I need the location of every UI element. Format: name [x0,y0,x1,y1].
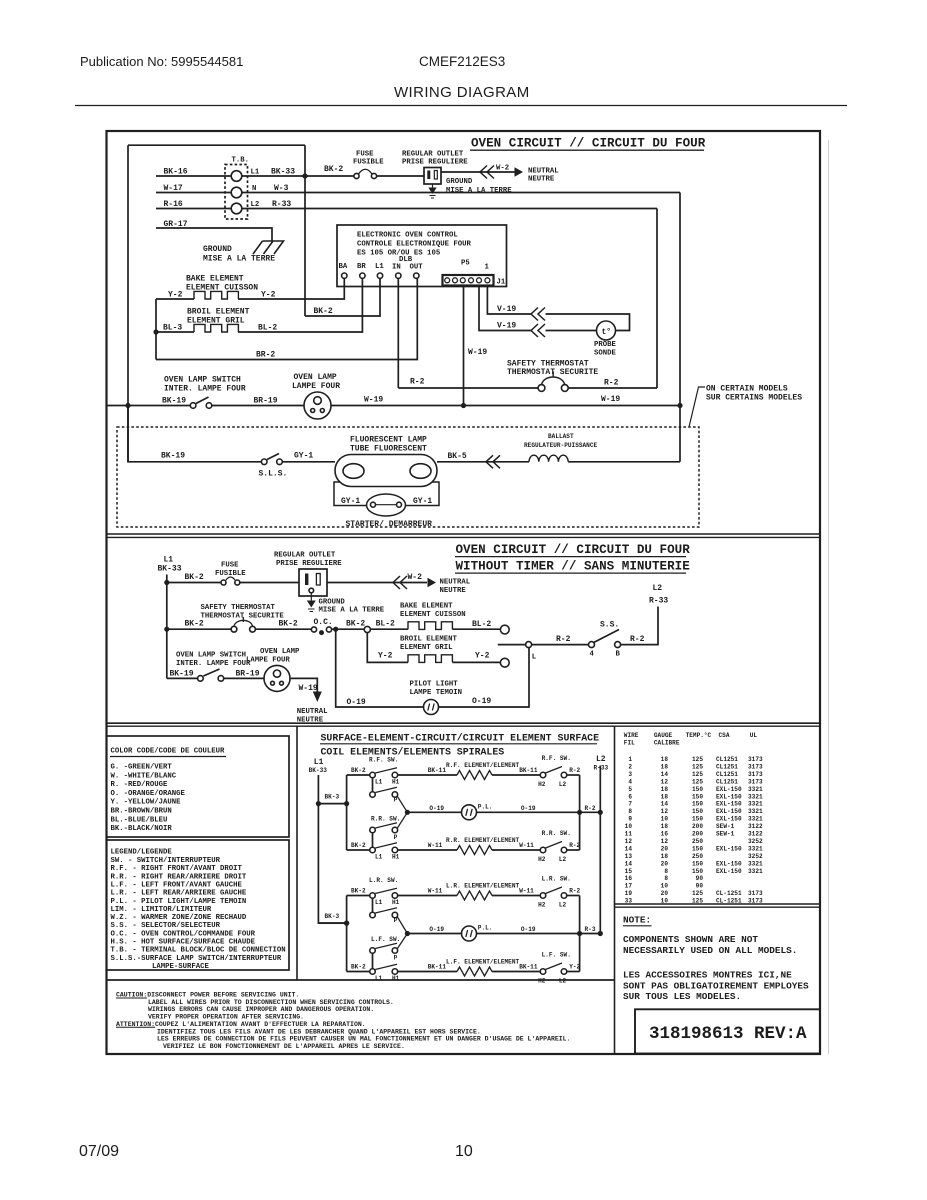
svg-text:CL-1251: CL-1251 [716,890,742,897]
wire broil element to selector contact [452,661,500,663]
surface element L.F. group 2 [457,967,492,976]
svg-text:O-19: O-19 [521,926,536,933]
svg-text:10: 10 [625,823,633,830]
wire table bottom border (upper line) [615,903,821,905]
svg-text:H.S. - HOT SURFACE/SURFACE CHA: H.S. - HOT SURFACE/SURFACE CHAUDE [111,939,256,947]
svg-text:BK-2: BK-2 [279,620,298,629]
svg-text:R-2: R-2 [569,767,580,774]
svg-text:Y-2: Y-2 [168,291,183,300]
wire feed group 2 [318,922,346,924]
link left contacts top group 1 [372,778,374,792]
svg-text:14: 14 [625,845,633,852]
svg-text:SUR TOUS LES MODELES.: SUR TOUS LES MODELES. [623,991,741,1002]
svg-text:VERIFY PROPER OPERATION AFTER: VERIFY PROPER OPERATION AFTER SERVICING. [148,1014,304,1021]
junction left frame bus / left feed [125,403,130,408]
svg-text:3321: 3321 [748,845,763,852]
ballast inductor coil [529,455,568,462]
svg-text:L.F. ELEMENT/ELEMENT: L.F. ELEMENT/ELEMENT [446,959,519,966]
svg-text:18: 18 [661,786,669,793]
regular outlet symbol (section 2) [299,569,327,596]
svg-text:BAKE ELEMENT: BAKE ELEMENT [186,275,244,284]
svg-text:L1: L1 [375,779,383,786]
svg-text:200: 200 [692,823,703,830]
revision box [635,1009,820,1053]
svg-text:SEW-1: SEW-1 [716,831,735,838]
svg-text:GAUGE: GAUGE [654,732,673,739]
svg-text:BR-19: BR-19 [254,397,278,406]
svg-text:BL-2: BL-2 [376,620,395,629]
wire BR-2 row to OUT terminal [156,278,417,359]
neutral down arrow (section 2) [313,692,322,703]
wire feed to bottom switch group 1 [347,849,370,851]
S.S. switch contact B [615,642,621,648]
wire BR terminal to BL-2 broil row [238,278,362,332]
svg-text:H2: H2 [538,902,546,909]
wire top box line from left bus to BK-2 bus [128,144,305,146]
svg-text:BA: BA [339,263,348,271]
svg-text:L1: L1 [375,263,384,271]
contact lower P right group 1 [392,827,398,833]
svg-text:150: 150 [692,868,703,875]
svg-text:ELEMENT CUISSON: ELEMENT CUISSON [400,611,466,619]
svg-text:12: 12 [661,778,669,785]
svg-text:BK-2: BK-2 [346,620,365,629]
svg-text:BK-11: BK-11 [519,964,538,971]
svg-text:BK-33: BK-33 [271,168,295,177]
oven lamp switch right contact (section 2) [218,676,224,682]
svg-text:W-3: W-3 [274,184,289,193]
svg-text:R.R. SW.: R.R. SW. [542,830,571,837]
wire J1 pin to V-19 lower row [479,285,531,331]
safety thermostat left terminal [538,385,545,392]
svg-text:L.R. - LEFT REAR/ARRIERE GAUCH: L.R. - LEFT REAR/ARRIERE GAUCHE [111,890,247,898]
svg-text:BR.-BROWN/BRUN: BR.-BROWN/BRUN [111,808,172,816]
svg-text:18: 18 [661,823,669,830]
oven temperature probe symbol [597,321,616,340]
svg-text:O-19: O-19 [429,805,444,812]
svg-text:19: 19 [625,890,633,897]
svg-text:R.F. SW.: R.F. SW. [542,755,571,762]
svg-text:16: 16 [661,831,669,838]
wire R.F. row left group 1 [398,774,457,776]
S.S. switch contact 4 [589,642,595,648]
wire R.F. row right group 1 [492,774,540,776]
svg-text:6: 6 [628,793,632,800]
oven control contact right [326,627,331,632]
right switch contact H2 R.F. group 1 [540,772,546,778]
svg-text:BR-2: BR-2 [256,351,275,360]
wire pilot light to selector common [439,648,530,707]
wire BA terminal to Y-2 bake row [238,278,344,299]
fuse left terminal (section 2) [221,580,226,585]
svg-text:O. -ORANGE/ORANGE: O. -ORANGE/ORANGE [111,790,186,798]
svg-text:NEUTRAL: NEUTRAL [297,708,328,716]
pilot light P.L. group 2 [462,926,477,941]
svg-text:MISE A LA TERRE: MISE A LA TERRE [446,187,512,195]
svg-text:MISE A LA TERRE: MISE A LA TERRE [319,607,385,615]
junction L1 bus / thermostat row [164,627,169,632]
wire outlet ground lead [310,593,312,601]
svg-text:H1: H1 [392,779,400,786]
svg-text:R-2: R-2 [604,379,619,388]
svg-text:L1: L1 [375,854,383,861]
svg-text:CL1251: CL1251 [716,756,738,763]
svg-text:O-19: O-19 [521,805,536,812]
scan edge artifact line [828,140,830,1054]
svg-text:1: 1 [485,264,490,272]
regular outlet symbol [424,168,441,185]
svg-text:SAFETY THERMOSTAT: SAFETY THERMOSTAT [201,604,276,612]
surface lamp switch arm [267,454,279,460]
wire feed to top switch group 1 [347,774,370,776]
outlet ground terminal (section 2) [309,588,314,593]
wire bake tap down to broil row [367,633,408,663]
svg-text:3122: 3122 [748,831,763,838]
leader to dashed box [689,387,705,427]
neutral terminator arrow W-2 [515,167,524,177]
svg-text:3321: 3321 [748,786,763,793]
divider below oven circuit section (lower line) [107,536,821,538]
wire S.S. to L2 riser [621,607,658,645]
svg-text:T.B. - TERMINAL BLOCK/BLOC DE: T.B. - TERMINAL BLOCK/BLOC DE CONNECTION [111,947,286,955]
svg-text:H2: H2 [538,781,546,788]
broil element (section 2) [408,655,452,663]
svg-text:BK-2: BK-2 [314,307,333,316]
svg-text:ELEMENT GRIL: ELEMENT GRIL [400,644,453,652]
svg-text:L2: L2 [559,781,567,788]
connector J1 pin 2 [453,278,458,283]
wire feed to top switch group 2 [347,895,370,897]
svg-text:10: 10 [661,883,669,890]
wire pilot row right group 2 [477,933,601,935]
link left contacts bottom group 1 [372,833,374,847]
svg-text:BK-2: BK-2 [185,620,204,629]
svg-text:W-19: W-19 [468,348,487,357]
svg-text:10: 10 [661,816,669,823]
svg-text:L.R. ELEMENT/ELEMENT: L.R. ELEMENT/ELEMENT [446,883,519,890]
contact bottom L1 left group 1 [370,847,376,853]
surface title underline [320,743,597,745]
starter right terminal [397,502,402,507]
svg-text:P: P [394,834,398,841]
svg-text:33: 33 [625,898,633,905]
connector J1 pin 5 [477,278,482,283]
svg-text:125: 125 [692,771,703,778]
selector common terminal L [526,642,532,648]
starter left terminal [371,502,376,507]
section 1 title underline [470,149,704,151]
svg-text:LABEL ALL WIRES PRIOR TO DISCO: LABEL ALL WIRES PRIOR TO DISCONNECTION W… [148,999,394,1006]
svg-text:IDENTIFIEZ TOUS LES FILS AVANT: IDENTIFIEZ TOUS LES FILS AVANT DE LES DE… [157,1028,481,1035]
terminal block terminal N [231,187,242,198]
switch arm upper-mid group 1 [375,787,397,792]
svg-text:O-19: O-19 [472,697,491,706]
junction L1 bus / group 1 feed [316,801,321,806]
svg-text:LES ACCESSOIRES MONTRES ICI,NE: LES ACCESSOIRES MONTRES ICI,NE [623,970,792,981]
terminal block terminal L2 [231,203,242,214]
svg-text:NEUTRE: NEUTRE [440,587,467,595]
svg-text:CAUTION:DISCONNECT POWER BEFOR: CAUTION:DISCONNECT POWER BEFORE SERVICIN… [116,992,299,999]
svg-text:NEUTRE: NEUTRE [528,176,555,184]
svg-text:BK-33: BK-33 [309,767,328,774]
svg-text:BK-2: BK-2 [351,888,366,895]
wire L.R. row left group 2 [398,895,457,897]
svg-text:P: P [394,955,398,962]
svg-text:8: 8 [628,808,632,815]
wire L2 row R-16/R-33 [156,208,657,210]
pilot light symbol (section 2) [424,700,439,715]
svg-text:Y-2: Y-2 [475,652,490,661]
svg-text:12: 12 [661,838,669,845]
svg-text:PRISE REGULIERE: PRISE REGULIERE [402,159,468,167]
svg-text:3173: 3173 [748,756,763,763]
svg-text:L2: L2 [653,584,663,593]
wire P lower to pilot junction group 1 [397,812,407,828]
svg-text:REGULAR OUTLET: REGULAR OUTLET [402,151,464,159]
svg-text:IN: IN [392,264,401,272]
wire O.C. junction down to pilot row [336,629,424,707]
wire feed riser group 1 [346,775,348,850]
svg-text:OVEN LAMP: OVEN LAMP [294,373,337,382]
junction W-19 bus / J1 drop [461,403,466,408]
wire fuse to outlet (section 2) [240,582,299,584]
svg-text:FUSE: FUSE [221,562,239,570]
svg-text:BK-3: BK-3 [325,794,340,801]
junction L1 bus corner group 2 [344,921,349,926]
surface lamp switch left contact S.L.S. [261,459,267,465]
svg-text:150: 150 [692,816,703,823]
wire oven lamp to neutral drop (section 2) [290,678,317,691]
junction O.C. / pilot drop [333,627,338,632]
svg-text:INTER. LAMPE FOUR: INTER. LAMPE FOUR [164,385,246,394]
wire V-19 lower row to probe [546,330,597,332]
svg-text:15: 15 [625,868,633,875]
svg-text:BL-2: BL-2 [258,324,277,333]
svg-text:3321: 3321 [748,801,763,808]
svg-text:O-19: O-19 [347,698,366,707]
svg-text:R.R. ELEMENT/ELEMENT: R.R. ELEMENT/ELEMENT [446,837,519,844]
svg-text:BK-2: BK-2 [324,165,343,174]
svg-text:REGULATEUR-PUISSANCE: REGULATEUR-PUISSANCE [524,442,597,449]
connector J1 pin 1 [445,278,450,283]
color code box [107,736,290,837]
svg-text:150: 150 [692,786,703,793]
contact top L1 left group 2 [370,893,376,899]
svg-text:FUSIBLE: FUSIBLE [353,159,384,167]
svg-text:L2: L2 [596,755,606,764]
svg-text:W-19: W-19 [601,395,620,404]
svg-text:07/09: 07/09 [79,1143,119,1160]
svg-text:BK-19: BK-19 [162,397,186,406]
svg-text:EXL-150: EXL-150 [716,808,742,815]
safety thermostat right terminal [561,385,568,392]
svg-text:Publication No: 5995544581: Publication No: 5995544581 [80,54,243,69]
wire L1 row fuse to outlet [377,175,425,177]
svg-text:O.C. - OVEN CONTROL/COMMANDE F: O.C. - OVEN CONTROL/COMMANDE FOUR [111,930,256,938]
svg-text:BL-2: BL-2 [472,620,491,629]
wire L.F. row right group 2 [492,971,540,973]
svg-text:L1: L1 [314,758,324,767]
svg-text:VERIFIEZ LE BON FONCTIONNEMENT: VERIFIEZ LE BON FONCTIONNEMENT DE L'APPA… [163,1043,405,1050]
svg-text:SEW-1: SEW-1 [716,823,735,830]
svg-text:150: 150 [692,801,703,808]
wire O.C. to junction [332,628,364,630]
svg-text:BK-11: BK-11 [428,964,447,971]
svg-text:125: 125 [692,778,703,785]
svg-text:150: 150 [692,845,703,852]
svg-text:Y-2: Y-2 [378,652,393,661]
thermostat left terminal (section 2) [231,626,237,632]
svg-text:L.R. SW.: L.R. SW. [542,876,571,883]
wire fluorescent row from left bus [128,406,261,462]
divider below oven circuit section (upper line) [107,533,821,535]
bake element (section 2) [408,622,452,630]
svg-text:125: 125 [692,890,703,897]
svg-text:3321: 3321 [748,816,763,823]
contact bottom L1 right group 1 [392,847,398,853]
connector chevrons BK-5 [486,455,500,468]
svg-text:COMPONENTS SHOWN ARE NOT: COMPONENTS SHOWN ARE NOT [623,934,758,945]
contact upper P left group 2 [370,912,376,918]
svg-text:3173: 3173 [748,764,763,771]
wire pilot row group 1 [407,811,461,813]
neutral terminator arrow (section 2) [428,578,437,588]
svg-text:L.R. SW.: L.R. SW. [369,877,398,884]
wire L2 bus (surface) [599,766,601,934]
wire N row W-17/W-3 to right corner [156,192,680,194]
switch arm upper-mid group 2 [375,908,397,913]
svg-text:EXL-150: EXL-150 [716,868,742,875]
section 2 title underline 1 [455,556,686,558]
fuse F1 symbol [359,169,373,174]
svg-text:ELECTRONIC OVEN CONTROL: ELECTRONIC OVEN CONTROL [357,232,458,240]
svg-text:NEUTRAL: NEUTRAL [528,168,559,176]
svg-text:BL-3: BL-3 [163,324,182,333]
wire R.R. row left group 1 [398,849,457,851]
svg-text:BR-19: BR-19 [236,670,260,679]
wire outlet to neutral arrow (section 2) [327,582,427,584]
wire J1 pin to V-19 upper row [487,285,531,315]
svg-text:WIRING DIAGRAM: WIRING DIAGRAM [394,84,530,101]
svg-text:R. -RED/ROUGE: R. -RED/ROUGE [111,781,169,789]
svg-text:ON CERTAIN MODELS: ON CERTAIN MODELS [706,385,788,394]
wire L.F. to right loop group 2 [567,971,580,973]
wire J1 pin to W-19 bus [463,285,465,406]
svg-text:SONT PAS OBLIGATOIREMENT EMPLO: SONT PAS OBLIGATOIREMENT EMPLOYES [623,980,809,991]
wire feed riser group 2 [346,896,348,972]
svg-text:R-2: R-2 [569,888,580,895]
switch arm bottom group 2 [375,964,397,969]
svg-text:FLUORESCENT LAMP: FLUORESCENT LAMP [350,436,427,445]
svg-text:L: L [532,654,536,662]
svg-text:18: 18 [661,756,669,763]
svg-text:18: 18 [661,853,669,860]
surface element L.R. group 2 [457,891,492,900]
svg-text:P.L.: P.L. [478,803,493,810]
svg-text:W-2: W-2 [496,165,509,173]
wire R.R. row right group 1 [492,849,540,851]
svg-text:O-19: O-19 [429,926,444,933]
svg-text:FIL: FIL [624,740,635,747]
svg-text:Y-2: Y-2 [261,291,276,300]
svg-text:t°: t° [602,328,612,337]
svg-text:2: 2 [628,764,632,771]
svg-text:Y. -YELLOW/JAUNE: Y. -YELLOW/JAUNE [111,799,182,807]
svg-text:9: 9 [628,816,632,823]
svg-text:L1: L1 [251,169,260,177]
wire switch to oven lamp (section 2) [224,677,264,679]
svg-text:L2: L2 [251,201,260,209]
right switch contact L2 R.F. group 1 [561,772,567,778]
svg-text:T.B.: T.B. [232,157,250,165]
thermostat right terminal (section 2) [250,626,256,632]
oven lamp symbol [304,392,331,419]
fuse left terminal [354,173,359,178]
svg-text:13: 13 [625,853,633,860]
svg-text:14: 14 [625,860,633,867]
svg-text:5: 5 [628,786,632,793]
EOC terminal OUT [414,273,419,278]
svg-text:H2: H2 [538,978,546,985]
underline NOTE [623,925,652,927]
svg-text:150: 150 [692,860,703,867]
svg-text:UL: UL [750,732,758,739]
svg-text:8: 8 [664,868,668,875]
svg-text:L1: L1 [375,899,383,906]
junction pilot drop group 1 [405,810,410,815]
right switch contact H2 L.F. group 2 [540,969,546,975]
wire R-2 row to safety thermostat [398,387,538,389]
wire right loop group 1 [579,775,581,850]
svg-text:17: 17 [625,883,633,890]
svg-text:OVEN LAMP SWITCH: OVEN LAMP SWITCH [164,376,241,385]
switch arm lower-mid group 2 [375,943,397,948]
svg-text:R-3: R-3 [585,926,596,933]
svg-text:GROUND: GROUND [446,178,473,186]
svg-text:B: B [616,651,621,659]
divider below without-timer section (lower line) [107,725,821,727]
svg-text:L1: L1 [375,975,383,982]
svg-text:14: 14 [661,801,669,808]
right switch contact L2 L.F. group 2 [561,969,567,975]
svg-text:W.Z. - WARMER ZONE/ZONE RECHAU: W.Z. - WARMER ZONE/ZONE RECHAUD [111,914,247,922]
svg-text:CONTROLE ELECTRONIQUE FOUR: CONTROLE ELECTRONIQUE FOUR [357,241,471,249]
svg-text:200: 200 [692,831,703,838]
svg-text:20: 20 [661,845,669,852]
svg-text:R.F. - RIGHT FRONT/AVANT DROIT: R.F. - RIGHT FRONT/AVANT DROIT [111,865,243,873]
junction pilot row / right loop group 1 [577,810,582,815]
svg-text:BK-19: BK-19 [170,670,194,679]
right switch contact H2 R.R. group 1 [540,847,546,853]
svg-text:EXL-150: EXL-150 [716,845,742,852]
fuse symbol (section 2) [226,577,235,580]
EOC terminal L1 [377,273,382,278]
fuse right terminal (section 2) [235,580,240,585]
svg-text:BK-19: BK-19 [161,452,185,461]
svg-text:THERMOSTAT SECURITE: THERMOSTAT SECURITE [201,613,285,621]
right switch arm L.F. group 2 [546,963,563,970]
underline ATTENTION [116,1026,155,1028]
svg-text:3252: 3252 [748,853,763,860]
svg-text:LAMPE FOUR: LAMPE FOUR [292,382,340,391]
wire L1 bus (surface) [318,775,346,923]
oven lamp symbol (section 2) [264,665,290,691]
wire R.R. to right loop group 1 [567,849,580,851]
underline CAUTION [116,997,147,999]
oven lamp switch arm [196,397,209,404]
svg-text:125: 125 [692,756,703,763]
svg-text:BR: BR [357,263,366,271]
